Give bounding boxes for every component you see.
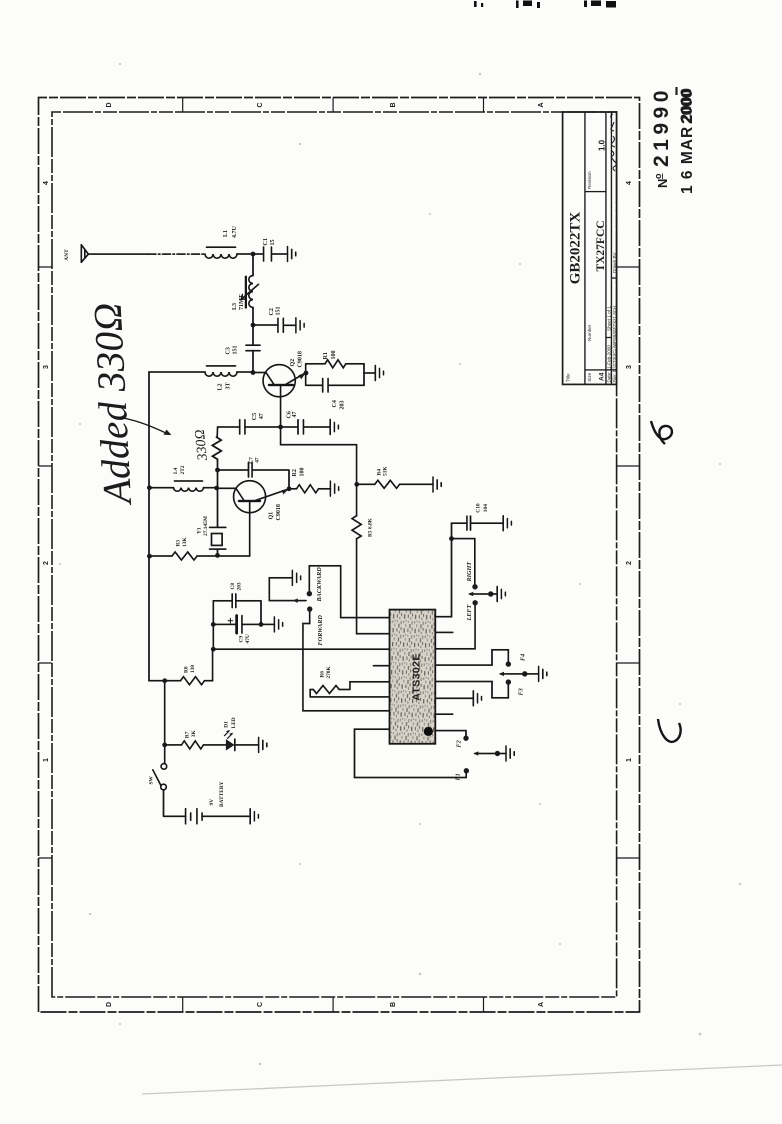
svg-text:270K: 270K bbox=[326, 666, 332, 679]
svg-text:Title: Title bbox=[566, 373, 571, 382]
inductor L1 4.7U bbox=[205, 226, 238, 259]
node pad F2 bbox=[463, 736, 468, 741]
ground IC bbox=[473, 691, 481, 706]
svg-text:4: 4 bbox=[43, 181, 50, 185]
wire F4 trace bbox=[435, 650, 508, 665]
zone ticks bottom edge bbox=[617, 267, 640, 858]
svg-text:D1: D1 bbox=[223, 721, 229, 728]
zone ticks top edge bbox=[39, 267, 53, 858]
node base feed bbox=[278, 425, 283, 430]
svg-text:GB2022TX: GB2022TX bbox=[568, 212, 584, 285]
ground R/L jumper bbox=[497, 587, 505, 602]
svg-text:Number: Number bbox=[587, 324, 592, 341]
svg-text:LEFT: LEFT bbox=[466, 604, 473, 621]
node C2/C3 bbox=[251, 323, 256, 328]
svg-text:C3: C3 bbox=[226, 347, 232, 354]
crystal Y1 27.145M bbox=[196, 470, 226, 555]
svg-text:4: 4 bbox=[626, 181, 633, 185]
svg-text:47U: 47U bbox=[245, 634, 251, 643]
svg-text:151: 151 bbox=[233, 346, 239, 355]
resistor R2 100 bbox=[289, 468, 330, 493]
ground C10 bbox=[503, 516, 511, 531]
node pad LEFT bbox=[472, 600, 477, 605]
svg-text:D: D bbox=[106, 102, 113, 107]
svg-text:R6: R6 bbox=[320, 671, 326, 678]
wire FWD/BWD common to ground bbox=[269, 578, 306, 601]
svg-text:L1: L1 bbox=[223, 230, 229, 237]
node C1/L3 bbox=[251, 252, 256, 257]
svg-text:Drawn By:: Drawn By: bbox=[612, 252, 617, 273]
capacitor C6 47 bbox=[287, 411, 331, 434]
resistor R8 130 bbox=[165, 665, 213, 685]
svg-text:13K: 13K bbox=[182, 537, 188, 547]
handwritten check curl 1 bbox=[651, 421, 672, 444]
node C10 bbox=[449, 536, 454, 541]
node pad RIGHT bbox=[472, 584, 477, 589]
svg-text:A: A bbox=[538, 102, 545, 107]
wire F2 trace bbox=[435, 731, 466, 738]
wire IC ground pin bbox=[435, 697, 473, 699]
svg-text:2: 2 bbox=[626, 561, 633, 565]
svg-text:C: C bbox=[257, 102, 264, 107]
svg-text:F3: F3 bbox=[518, 688, 525, 695]
svg-text:L3: L3 bbox=[232, 303, 238, 310]
node pad FORWARD bbox=[307, 606, 312, 611]
ground F1/F2 bbox=[506, 746, 514, 761]
node L4/Q1 bbox=[214, 486, 219, 491]
svg-text:3T: 3T bbox=[225, 382, 231, 389]
svg-text:o: o bbox=[653, 173, 663, 179]
svg-text:71MT: 71MT bbox=[239, 294, 245, 310]
svg-text:L4: L4 bbox=[173, 467, 179, 474]
svg-text:LED: LED bbox=[231, 717, 237, 728]
resistor R5 6.8K bbox=[352, 484, 390, 633]
wire switch rail bbox=[164, 681, 166, 764]
resistor R7 3K bbox=[165, 730, 226, 749]
node pad BACKWARD bbox=[307, 591, 312, 596]
capacitor C3 151 bbox=[226, 325, 260, 372]
svg-text:BACKWARD: BACKWARD bbox=[316, 567, 323, 603]
svg-text:R5 6.8K: R5 6.8K bbox=[368, 517, 374, 537]
svg-text:BATTERY: BATTERY bbox=[219, 781, 225, 807]
svg-text:C10: C10 bbox=[475, 503, 481, 513]
svg-text:104: 104 bbox=[483, 504, 489, 512]
inductor L4 2T2 bbox=[149, 465, 204, 491]
LED D1 bbox=[223, 717, 258, 750]
svg-text:Q2: Q2 bbox=[290, 359, 296, 367]
capacitor C1 15 bbox=[253, 238, 288, 261]
svg-text:2T2: 2T2 bbox=[180, 465, 186, 474]
stamp date 16 MAR 2000 bbox=[678, 88, 696, 194]
svg-text:ATS302E: ATS302E bbox=[411, 653, 423, 701]
svg-text:203: 203 bbox=[339, 401, 345, 410]
svg-text:151: 151 bbox=[276, 307, 282, 316]
transistor Q1 C9018 bbox=[234, 481, 289, 521]
wire L2 to collector node bbox=[237, 371, 253, 373]
resistor R6 270K bbox=[310, 666, 389, 697]
svg-text:4.7U: 4.7U bbox=[232, 226, 238, 239]
svg-text:47: 47 bbox=[259, 413, 265, 419]
svg-text:A: A bbox=[538, 1002, 545, 1007]
inductor L2 3T bbox=[205, 366, 237, 391]
wire pin stub NC top bbox=[373, 665, 389, 667]
svg-text:F4: F4 bbox=[519, 654, 526, 661]
svg-text:21990: 21990 bbox=[650, 86, 673, 167]
node common R/L bbox=[488, 591, 493, 596]
resistor R1 100 bbox=[306, 351, 364, 386]
capacitor C7 47 bbox=[218, 457, 290, 489]
svg-text:47: 47 bbox=[255, 457, 261, 463]
capacitor C2 151 bbox=[253, 307, 296, 333]
wire switch to battery bbox=[164, 790, 186, 817]
svg-text:C4: C4 bbox=[332, 400, 338, 407]
wire LEFT trace bbox=[435, 604, 475, 649]
wire emitter net to ground bbox=[364, 372, 375, 374]
svg-text:Y1: Y1 bbox=[196, 527, 202, 534]
wire FORWARD trace bbox=[303, 612, 390, 711]
wire bias rail from VCC bbox=[149, 555, 172, 557]
wire (scan dash-dot) bbox=[148, 253, 204, 255]
ground C9 bbox=[274, 617, 282, 632]
svg-text:51K: 51K bbox=[383, 466, 389, 476]
node switch branch bbox=[162, 678, 167, 683]
node VCC/R3 bbox=[147, 554, 152, 559]
svg-text:203: 203 bbox=[236, 582, 242, 590]
wire long rail to IC bbox=[213, 648, 390, 650]
transistor Q2 C9018 bbox=[253, 351, 306, 397]
node C8 return bbox=[259, 622, 264, 627]
ground C2 bbox=[296, 318, 304, 333]
wire F1 loop bbox=[355, 729, 467, 777]
svg-text:3K: 3K bbox=[191, 730, 197, 738]
svg-text:R1: R1 bbox=[323, 352, 329, 359]
scan speckles bbox=[59, 63, 741, 1065]
svg-text:Sheet 1 of 1: Sheet 1 of 1 bbox=[606, 306, 611, 331]
wire VCC rail bbox=[148, 372, 150, 681]
variable inductor L3 71MT bbox=[232, 276, 259, 311]
antenna ANT bbox=[64, 245, 88, 263]
border inner frame bbox=[52, 112, 617, 997]
stamp stray dash bbox=[675, 87, 677, 95]
wire Q1 base bbox=[249, 513, 251, 556]
svg-text:11-Feb-2000: 11-Feb-2000 bbox=[606, 345, 611, 371]
ground C1 bbox=[288, 247, 296, 262]
svg-text:C: C bbox=[257, 1002, 264, 1007]
svg-text:SW: SW bbox=[149, 776, 155, 785]
wire L3 to node bbox=[252, 308, 254, 326]
node Q2 emitter bbox=[304, 371, 309, 376]
svg-text:15: 15 bbox=[270, 240, 276, 246]
wire node to L3 bbox=[252, 254, 254, 276]
IC U1 ATS302E bbox=[390, 610, 436, 744]
svg-text:3: 3 bbox=[626, 365, 633, 369]
border outer frame bbox=[39, 98, 640, 1013]
wire pin stub NC bottom2 bbox=[435, 713, 452, 715]
handwritten check curl 2 bbox=[658, 719, 681, 742]
node pad F1 bbox=[464, 768, 469, 773]
handwritten signature bbox=[611, 114, 617, 171]
node pad F3 bbox=[506, 679, 511, 684]
ground R2 bbox=[330, 481, 338, 496]
svg-text:C9018: C9018 bbox=[276, 504, 282, 520]
wire VCC to L2 bbox=[149, 371, 205, 373]
node common F1/F2 bbox=[495, 751, 500, 756]
node Q1 emitter bbox=[287, 486, 292, 491]
resistor 330 (added, hand-drawn) bbox=[212, 427, 221, 470]
capacitor C5 47 bbox=[240, 413, 298, 434]
capacitor C4 203 bbox=[306, 364, 364, 410]
svg-text:C5: C5 bbox=[252, 413, 258, 420]
svg-text:D:\GTIXXCL\WPS9303\TX21.SCH: D:\GTIXXCL\WPS9303\TX21.SCH bbox=[612, 306, 617, 372]
stamp no 21990 bbox=[650, 86, 673, 188]
resistor R3 13K bbox=[172, 537, 250, 560]
node VCC/L4 bbox=[147, 485, 152, 490]
capacitor C9 47U electrolytic bbox=[213, 616, 274, 644]
capacitor C8 203 bbox=[213, 582, 261, 624]
wire C5/C6 rail bbox=[218, 426, 240, 428]
wire collector bbox=[217, 487, 236, 489]
node R4/R5 bbox=[354, 482, 359, 487]
svg-text:C9018: C9018 bbox=[297, 351, 303, 367]
node 330/C7 bbox=[215, 468, 220, 473]
svg-text:100: 100 bbox=[299, 468, 305, 477]
svg-text:R7: R7 bbox=[185, 731, 191, 738]
svg-text:27.145M: 27.145M bbox=[203, 516, 209, 536]
wire Q2 base bbox=[280, 397, 282, 427]
svg-text:File:: File: bbox=[612, 374, 617, 383]
wire ANT to L1 bbox=[88, 253, 148, 255]
svg-text:1: 1 bbox=[43, 758, 50, 762]
svg-text:1 6 MAR: 1 6 MAR bbox=[679, 126, 696, 194]
wire F3 trace bbox=[435, 682, 508, 698]
svg-text:2000: 2000 bbox=[678, 88, 695, 122]
svg-text:B: B bbox=[390, 1002, 397, 1007]
svg-text:2: 2 bbox=[43, 561, 50, 565]
node pad F4 bbox=[506, 661, 511, 666]
ground battery bbox=[250, 809, 258, 824]
resistor R4 51K bbox=[357, 466, 433, 489]
wire L4 to Q1 collector bbox=[204, 487, 217, 489]
svg-text:ANT: ANT bbox=[64, 249, 70, 261]
svg-text:Q1: Q1 bbox=[269, 512, 275, 520]
ground LED bbox=[259, 737, 267, 752]
svg-text:9V: 9V bbox=[209, 799, 215, 806]
handwritten arrow bbox=[123, 418, 172, 435]
svg-text:100: 100 bbox=[331, 351, 337, 360]
svg-text:Date:: Date: bbox=[606, 372, 611, 383]
wire F1/F2 common bbox=[475, 753, 497, 755]
wire C10/RIGHT trace bbox=[435, 539, 451, 617]
wire L1 to node bbox=[237, 253, 253, 255]
title block bbox=[563, 112, 617, 384]
svg-text:C2: C2 bbox=[269, 308, 275, 315]
svg-text:Revision: Revision bbox=[587, 171, 592, 189]
wire BACKWARD trace bbox=[309, 566, 389, 618]
wire VCC corner to R8 bbox=[149, 680, 165, 682]
svg-text:C9: C9 bbox=[239, 636, 245, 643]
wire pin stub NC bottom1 bbox=[435, 631, 452, 633]
svg-text:D: D bbox=[106, 1002, 113, 1007]
node common F3/F4 bbox=[522, 671, 527, 676]
svg-text:TX27FCC: TX27FCC bbox=[595, 220, 607, 271]
ground F3/F4 bbox=[539, 666, 547, 681]
ground C6 bbox=[330, 420, 338, 435]
svg-text:C1: C1 bbox=[263, 238, 269, 245]
wire RIGHT/LEFT common bbox=[470, 593, 490, 595]
wire R8 to rail corner bbox=[212, 649, 214, 681]
node crystal/bias bbox=[215, 553, 220, 558]
svg-text:FORWARD: FORWARD bbox=[317, 615, 324, 646]
wire to C9/C8 bbox=[212, 601, 214, 649]
svg-text:B: B bbox=[390, 102, 397, 107]
svg-text:R8: R8 bbox=[183, 666, 189, 673]
battery 9V bbox=[186, 781, 251, 823]
svg-text:R4: R4 bbox=[376, 469, 382, 476]
svg-text:RIGHT: RIGHT bbox=[466, 562, 473, 583]
svg-text:F1: F1 bbox=[455, 773, 462, 780]
svg-text:F2: F2 bbox=[456, 740, 463, 747]
node LED branch bbox=[162, 743, 167, 748]
switch SW bbox=[149, 764, 167, 790]
svg-text:Size: Size bbox=[587, 372, 592, 381]
svg-text:L2: L2 bbox=[218, 383, 224, 390]
svg-text:C8: C8 bbox=[230, 583, 236, 590]
wire to RIGHT pad bbox=[452, 539, 475, 586]
svg-text:A4: A4 bbox=[599, 372, 606, 381]
edge fragments right margin bbox=[474, 1, 616, 9]
svg-text:3: 3 bbox=[43, 365, 50, 369]
node Q2 collector bbox=[251, 370, 256, 375]
zone ticks right edge bbox=[183, 98, 484, 113]
svg-text:N: N bbox=[655, 179, 670, 188]
wire base-feed to R4/R5 node bbox=[281, 427, 357, 484]
svg-text:1.0: 1.0 bbox=[597, 139, 606, 151]
svg-text:R2: R2 bbox=[292, 469, 298, 476]
ground R4 bbox=[433, 477, 441, 492]
node C9 bbox=[211, 622, 216, 627]
svg-text:C7: C7 bbox=[248, 457, 254, 464]
faint scan streak bbox=[142, 1065, 782, 1094]
zone ticks left edge bbox=[183, 997, 484, 1012]
ground FWD/BWD bbox=[292, 570, 300, 585]
svg-text:1: 1 bbox=[626, 758, 633, 762]
svg-text:130: 130 bbox=[190, 665, 196, 673]
node rail/C9 branch bbox=[211, 647, 216, 652]
svg-text:47: 47 bbox=[292, 412, 298, 418]
capacitor C10 104 bbox=[452, 503, 504, 538]
ground R1/C4 bbox=[375, 366, 383, 381]
wire F3/F4 common bbox=[501, 673, 524, 675]
svg-text:R3: R3 bbox=[175, 540, 181, 547]
